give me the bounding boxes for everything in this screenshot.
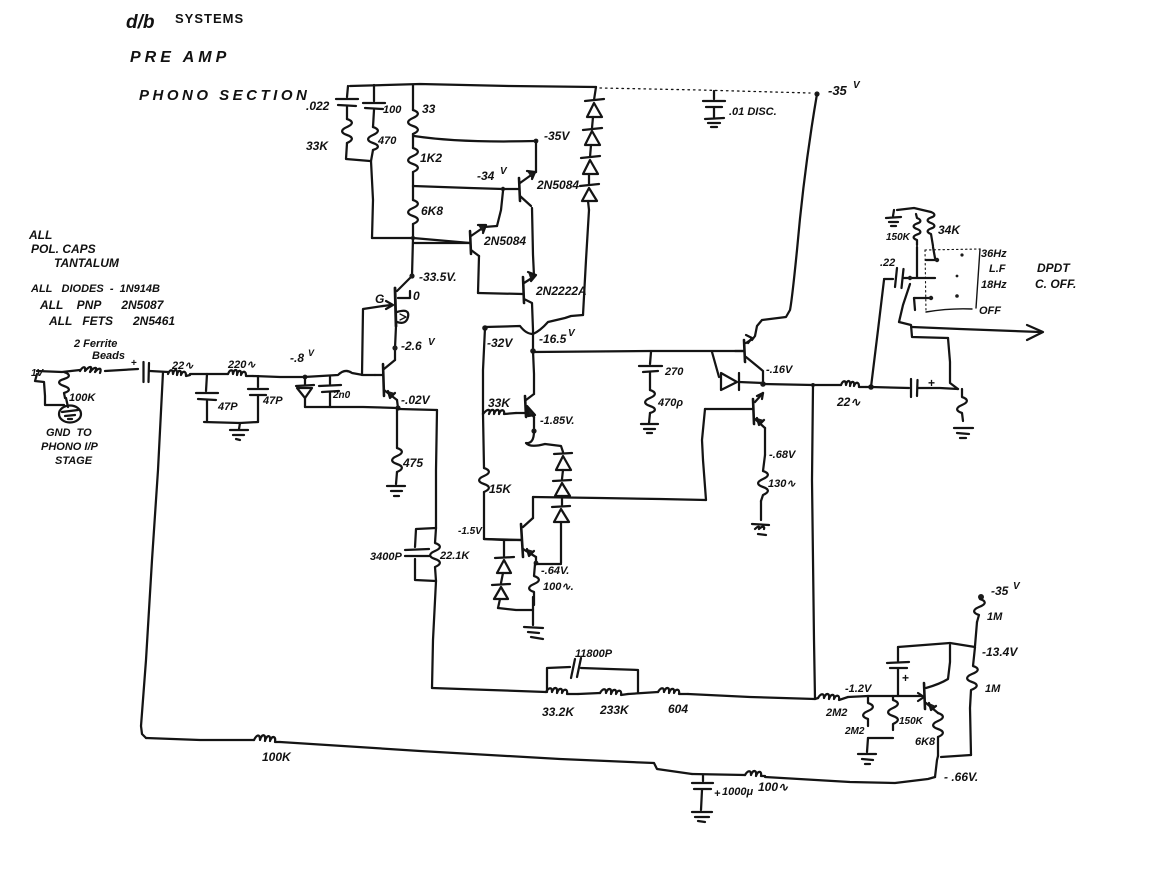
svg-text:PHONO SECTION: PHONO SECTION xyxy=(139,87,310,104)
svg-text:233K: 233K xyxy=(599,703,630,717)
wire bottom of 47P caps xyxy=(204,422,258,423)
svg-text:SYSTEMS: SYSTEMS xyxy=(175,11,244,26)
wire Q6 collector up xyxy=(532,497,534,518)
diode D6 xyxy=(553,480,571,481)
svg-text:100K: 100K xyxy=(262,750,292,764)
svg-text:2 Ferrite: 2 Ferrite xyxy=(73,338,117,350)
resistor 2M2 vertical xyxy=(863,696,873,726)
ferrite beads squiggle xyxy=(80,367,101,373)
wire cap left slant down to output junction xyxy=(871,280,884,387)
svg-text:-.68V: -.68V xyxy=(769,449,797,461)
svg-text:ALL PNP 2N5087: ALL PNP 2N5087 xyxy=(39,298,165,312)
node -13.4V xyxy=(982,645,1018,659)
svg-text:270: 270 xyxy=(664,366,684,378)
label -34V xyxy=(477,166,508,183)
node output xyxy=(760,381,766,387)
ground 130 ohm scribble xyxy=(752,524,769,535)
resistor 6K8 xyxy=(408,200,418,224)
wire diode pair bottom to 100ohm bottom xyxy=(498,608,533,610)
wire -32V up from emitter of Q2 handled; vertical down xyxy=(483,328,485,414)
wire emitter to 22.1K column xyxy=(399,409,437,410)
resistor 22 ohm output xyxy=(841,381,866,387)
diode D2 xyxy=(583,128,602,130)
resistor 604 xyxy=(658,688,688,694)
svg-text:.01 DISC.: .01 DISC. xyxy=(729,106,777,118)
svg-text:22∿: 22∿ xyxy=(171,360,194,372)
svg-text:34K: 34K xyxy=(938,223,961,237)
node -33.5V xyxy=(409,273,414,278)
wire gate vertical xyxy=(362,306,383,375)
diode input clamp xyxy=(304,378,306,385)
capacitor 47P first xyxy=(206,374,207,391)
switch pole dots xyxy=(960,253,963,256)
svg-text:.022: .022 xyxy=(306,99,330,113)
svg-text:-1.2V: -1.2V xyxy=(845,683,873,695)
transistor Q1 2N5084 upper xyxy=(519,178,520,201)
wire base line to Q1 xyxy=(413,186,503,189)
ground 1000u xyxy=(692,812,712,822)
ground for .01 disc xyxy=(705,118,724,127)
diode D9 xyxy=(492,584,510,585)
wire main left vertical x413 xyxy=(412,85,414,110)
svg-text:d/b: d/b xyxy=(126,12,155,33)
resistor 1M upper xyxy=(974,599,985,622)
wire feedback vertical down xyxy=(812,385,815,699)
svg-text:150K: 150K xyxy=(899,716,924,727)
wire top rail dotted to -35V xyxy=(600,88,810,93)
svg-text:TANTALUM: TANTALUM xyxy=(54,256,120,270)
wire to 100 ohm bottom xyxy=(692,774,745,775)
capacitor 47P second xyxy=(257,376,259,387)
resistor 33K xyxy=(342,119,352,143)
transistor Q3 2N2222A xyxy=(523,277,524,303)
ground load xyxy=(954,428,973,438)
svg-text:47P: 47P xyxy=(262,395,283,407)
svg-text:2N5084: 2N5084 xyxy=(536,178,579,192)
svg-text:-32V: -32V xyxy=(487,336,513,350)
resistor 22.1K xyxy=(430,528,440,581)
svg-text:+: + xyxy=(714,788,721,800)
wire to output tap xyxy=(688,694,818,699)
wire xyxy=(190,373,228,375)
resistor 100K input xyxy=(59,372,69,398)
svg-text:150K: 150K xyxy=(886,232,911,243)
svg-text:-34: -34 xyxy=(477,169,495,183)
capacitor coupling input + xyxy=(131,358,137,369)
wire 22.1K column to feedback line xyxy=(432,581,436,688)
resistor 1M lower xyxy=(967,647,978,755)
svg-text:2M2: 2M2 xyxy=(825,707,847,719)
wire feedback start xyxy=(432,688,546,692)
svg-text:.22: .22 xyxy=(880,257,895,269)
svg-text:3400P: 3400P xyxy=(370,551,402,563)
transistor Q6 lower mid xyxy=(521,524,523,557)
svg-text:-.02V: -.02V xyxy=(401,393,431,407)
svg-text:475: 475 xyxy=(402,456,423,470)
wire top loop xyxy=(897,208,931,212)
wire x413 continues down xyxy=(412,238,413,276)
wire to 22ohm xyxy=(150,371,168,372)
svg-text:33: 33 xyxy=(422,102,436,116)
resistor 34K xyxy=(928,212,935,246)
resistor 100 ohm xyxy=(529,564,539,605)
wire base line lower Q xyxy=(484,539,521,540)
svg-text:2M2: 2M2 xyxy=(844,726,865,737)
wire bottom line to -.66V corner xyxy=(765,777,935,783)
wire branch to -35V node over Q collector xyxy=(414,136,536,141)
svg-text:-2.6: -2.6 xyxy=(401,339,422,353)
FET 2N5461 channel xyxy=(395,288,396,326)
wire xyxy=(578,693,600,694)
wire top rail solid xyxy=(350,84,596,87)
svg-text:DPDT: DPDT xyxy=(1037,261,1071,275)
diode D10 xyxy=(712,352,719,377)
wire node right slant down xyxy=(899,284,910,322)
FET gate arrow xyxy=(383,305,391,306)
svg-text:0: 0 xyxy=(413,289,420,303)
arrow wire output select xyxy=(912,327,1040,332)
svg-text:130∿: 130∿ xyxy=(768,478,796,490)
TITLES xyxy=(28,11,310,328)
svg-text:G: G xyxy=(375,292,384,306)
capacitor 2n0 xyxy=(329,377,331,384)
diode D5 xyxy=(554,453,572,454)
resistor 150K servo xyxy=(888,696,898,730)
svg-text:ALL DIODES - 1N914B: ALL DIODES - 1N914B xyxy=(30,283,160,295)
FET source terminal 0 xyxy=(398,291,410,298)
node -35V bottom xyxy=(978,594,984,600)
svg-text:33K: 33K xyxy=(488,396,511,410)
wire bottom loop from input xyxy=(146,738,254,740)
svg-text:-13.4V: -13.4V xyxy=(982,645,1018,659)
wire xyxy=(628,692,658,694)
svg-text:-.8: -.8 xyxy=(290,351,304,365)
wire -16.5V column down to Q5 collector xyxy=(533,351,534,394)
svg-text:ALL FETS 2N5461: ALL FETS 2N5461 xyxy=(48,314,175,328)
resistor 220ohm xyxy=(228,370,253,376)
svg-text:1K2: 1K2 xyxy=(420,151,442,165)
svg-text:18Hz: 18Hz xyxy=(981,279,1007,291)
resistor 1K2 xyxy=(408,148,418,172)
resistor 233K xyxy=(600,689,628,695)
resistor 15K xyxy=(479,468,489,492)
node -32V xyxy=(482,325,488,331)
ground 470p xyxy=(641,424,658,433)
input source bracket xyxy=(35,374,64,405)
ground 475 xyxy=(387,486,405,496)
wire bottom line continues xyxy=(280,742,692,774)
svg-text:C. OFF.: C. OFF. xyxy=(1035,277,1076,291)
transistor Q8 output lower xyxy=(753,399,754,424)
switch labels xyxy=(979,248,1076,317)
node feedback tap xyxy=(811,383,815,387)
wire input line xyxy=(37,370,80,372)
resistor 470 xyxy=(368,127,378,150)
svg-text:47P: 47P xyxy=(217,401,238,413)
FET source loop S xyxy=(397,311,408,323)
capacitor 270 xyxy=(650,352,651,364)
svg-text:-1.5V: -1.5V xyxy=(458,526,483,537)
label 1V input xyxy=(31,368,45,379)
wire contact3 down and step to out cap xyxy=(914,298,915,310)
svg-text:11800P: 11800P xyxy=(575,648,613,660)
svg-text:100: 100 xyxy=(383,104,402,116)
transistor Q5 -1.85V stage xyxy=(525,396,526,417)
capacitor servo + xyxy=(897,647,899,661)
svg-text:36Hz: 36Hz xyxy=(981,248,1007,260)
resistor 470p xyxy=(645,390,655,413)
svg-text:-1.85V.: -1.85V. xyxy=(540,415,574,427)
svg-text:33K: 33K xyxy=(306,139,329,153)
svg-text:-16.5: -16.5 xyxy=(539,332,567,346)
switch contact 3 xyxy=(914,297,932,299)
wire -32V node to diode column with hop xyxy=(485,315,583,334)
ground switch top xyxy=(886,210,901,226)
resistor 475 emitter xyxy=(396,409,398,448)
wire input line to first stage with hop xyxy=(304,371,375,377)
capacitor 100 xyxy=(373,85,375,101)
capacitor 11800P bridge xyxy=(547,667,570,692)
capacitor .022 xyxy=(347,86,348,97)
node -.8V xyxy=(303,375,308,380)
svg-text:100∿.: 100∿. xyxy=(543,581,574,593)
svg-text:22.1K: 22.1K xyxy=(439,550,470,562)
svg-text:Beads: Beads xyxy=(92,350,125,362)
diode D4 xyxy=(580,184,599,186)
transistor Q4 input BJT xyxy=(383,364,384,396)
capacitor 1000u xyxy=(702,775,704,781)
wire xyxy=(253,376,304,377)
node -16.5V xyxy=(530,348,536,354)
ground 47P xyxy=(230,423,248,440)
svg-text:33.2K: 33.2K xyxy=(542,705,575,719)
node -2.6V xyxy=(392,345,397,350)
svg-text:604: 604 xyxy=(668,702,688,716)
transistor Q2 2N5084 lower xyxy=(470,231,471,254)
switch contact 1 xyxy=(926,259,938,261)
wire left column down to base line xyxy=(371,161,373,238)
svg-text:2n0: 2n0 xyxy=(332,390,351,401)
resistor 33K second stage xyxy=(483,410,516,414)
wire -16.5V to output base xyxy=(533,351,744,352)
diode D3 xyxy=(581,156,600,158)
diode D8 left pair xyxy=(503,540,505,556)
diode chain D1 xyxy=(594,87,596,100)
svg-text:2N5084: 2N5084 xyxy=(483,234,526,248)
wire 150K to contact2 column xyxy=(916,247,918,277)
svg-text:OFF: OFF xyxy=(979,305,1001,317)
wire emitter hook to diode chain xyxy=(526,431,563,452)
svg-text:1M: 1M xyxy=(985,683,1001,695)
svg-text:+: + xyxy=(902,671,909,685)
node junction out xyxy=(868,384,874,390)
capacitor .22 xyxy=(880,257,895,269)
svg-text:15K: 15K xyxy=(489,482,512,496)
wire top loop servo xyxy=(898,643,975,647)
svg-text:ALL: ALL xyxy=(28,228,52,242)
ground in circle (gnd to phono i/p stage) xyxy=(66,398,68,407)
svg-text:L.F: L.F xyxy=(989,263,1006,275)
transistor Q9 servo xyxy=(924,683,925,709)
capacitor .01 DISC xyxy=(713,91,715,99)
ground servo divider xyxy=(858,754,876,764)
svg-text:PRE AMP: PRE AMP xyxy=(130,49,230,66)
wire base line 2 xyxy=(372,238,470,243)
svg-text:-35: -35 xyxy=(828,83,848,98)
node input junction to feedback loop xyxy=(141,372,163,738)
node -35V top right xyxy=(814,91,819,96)
svg-text:-33.5V.: -33.5V. xyxy=(419,270,457,284)
svg-text:22∿: 22∿ xyxy=(836,395,861,409)
capacitor output + xyxy=(910,379,912,397)
wire diode chain down to -32V line xyxy=(583,210,589,315)
node -.02V xyxy=(395,405,400,410)
svg-text:POL. CAPS: POL. CAPS xyxy=(31,242,96,256)
wire to coupling cap xyxy=(105,369,138,371)
svg-text:1000μ: 1000μ xyxy=(722,786,753,798)
wire FET source column down xyxy=(395,326,396,360)
svg-text:-35: -35 xyxy=(991,584,1009,598)
ground 100ohm xyxy=(524,627,543,639)
switch outline dotted xyxy=(925,249,980,250)
svg-text:+: + xyxy=(131,358,137,369)
wire output line right xyxy=(763,384,841,385)
svg-text:2N2222A: 2N2222A xyxy=(535,284,587,298)
svg-text:470: 470 xyxy=(377,135,397,147)
svg-text:STAGE: STAGE xyxy=(55,455,93,467)
diode D7 xyxy=(552,506,570,507)
transistor Q7 output upper xyxy=(744,340,745,362)
svg-text:- .66V.: - .66V. xyxy=(944,770,978,784)
resistor load output xyxy=(957,389,967,421)
svg-text:1M: 1M xyxy=(987,611,1003,623)
capacitor 3400P xyxy=(405,549,429,550)
resistor 22ohm xyxy=(168,370,190,376)
svg-text:100∿: 100∿ xyxy=(758,780,789,794)
wire bottom row diode/cap xyxy=(305,407,397,408)
svg-text:V: V xyxy=(308,348,315,358)
svg-text:220∿: 220∿ xyxy=(227,359,256,371)
resistor 150K switch xyxy=(914,214,921,245)
svg-text:6K8: 6K8 xyxy=(421,204,443,218)
resistor 100K bottom xyxy=(254,735,280,742)
svg-text:-.64V.: -.64V. xyxy=(541,565,569,577)
svg-text:6K8: 6K8 xyxy=(915,736,936,748)
wire 15K column xyxy=(483,414,484,468)
svg-text:-.16V: -.16V xyxy=(766,364,794,376)
resistor 33.2K xyxy=(546,688,578,694)
wire base line -1.2V xyxy=(848,696,922,697)
svg-text:PHONO I/P: PHONO I/P xyxy=(41,441,99,453)
switch contact 2 xyxy=(911,277,935,279)
resistor 100 ohm bottom xyxy=(745,771,765,776)
svg-text:GND TO: GND TO xyxy=(46,427,92,439)
resistor 130 ohm xyxy=(758,455,768,501)
parallel block bracket xyxy=(415,528,436,581)
resistor 6K8 servo xyxy=(933,713,943,737)
wire mid long line to output lower base xyxy=(533,497,706,500)
resistor 2M2 horizontal xyxy=(818,694,848,700)
svg-text:100K: 100K xyxy=(69,392,96,404)
wire servo emitter bottom to -.66V xyxy=(935,756,938,777)
svg-text:470ρ: 470ρ xyxy=(657,397,683,409)
FET drain slant xyxy=(397,278,410,291)
svg-text:-35V: -35V xyxy=(544,129,570,143)
wire node to right diode chain bottom xyxy=(536,563,561,565)
resistor 33 xyxy=(408,110,418,134)
wire -35V long line down to output stage xyxy=(752,94,817,340)
